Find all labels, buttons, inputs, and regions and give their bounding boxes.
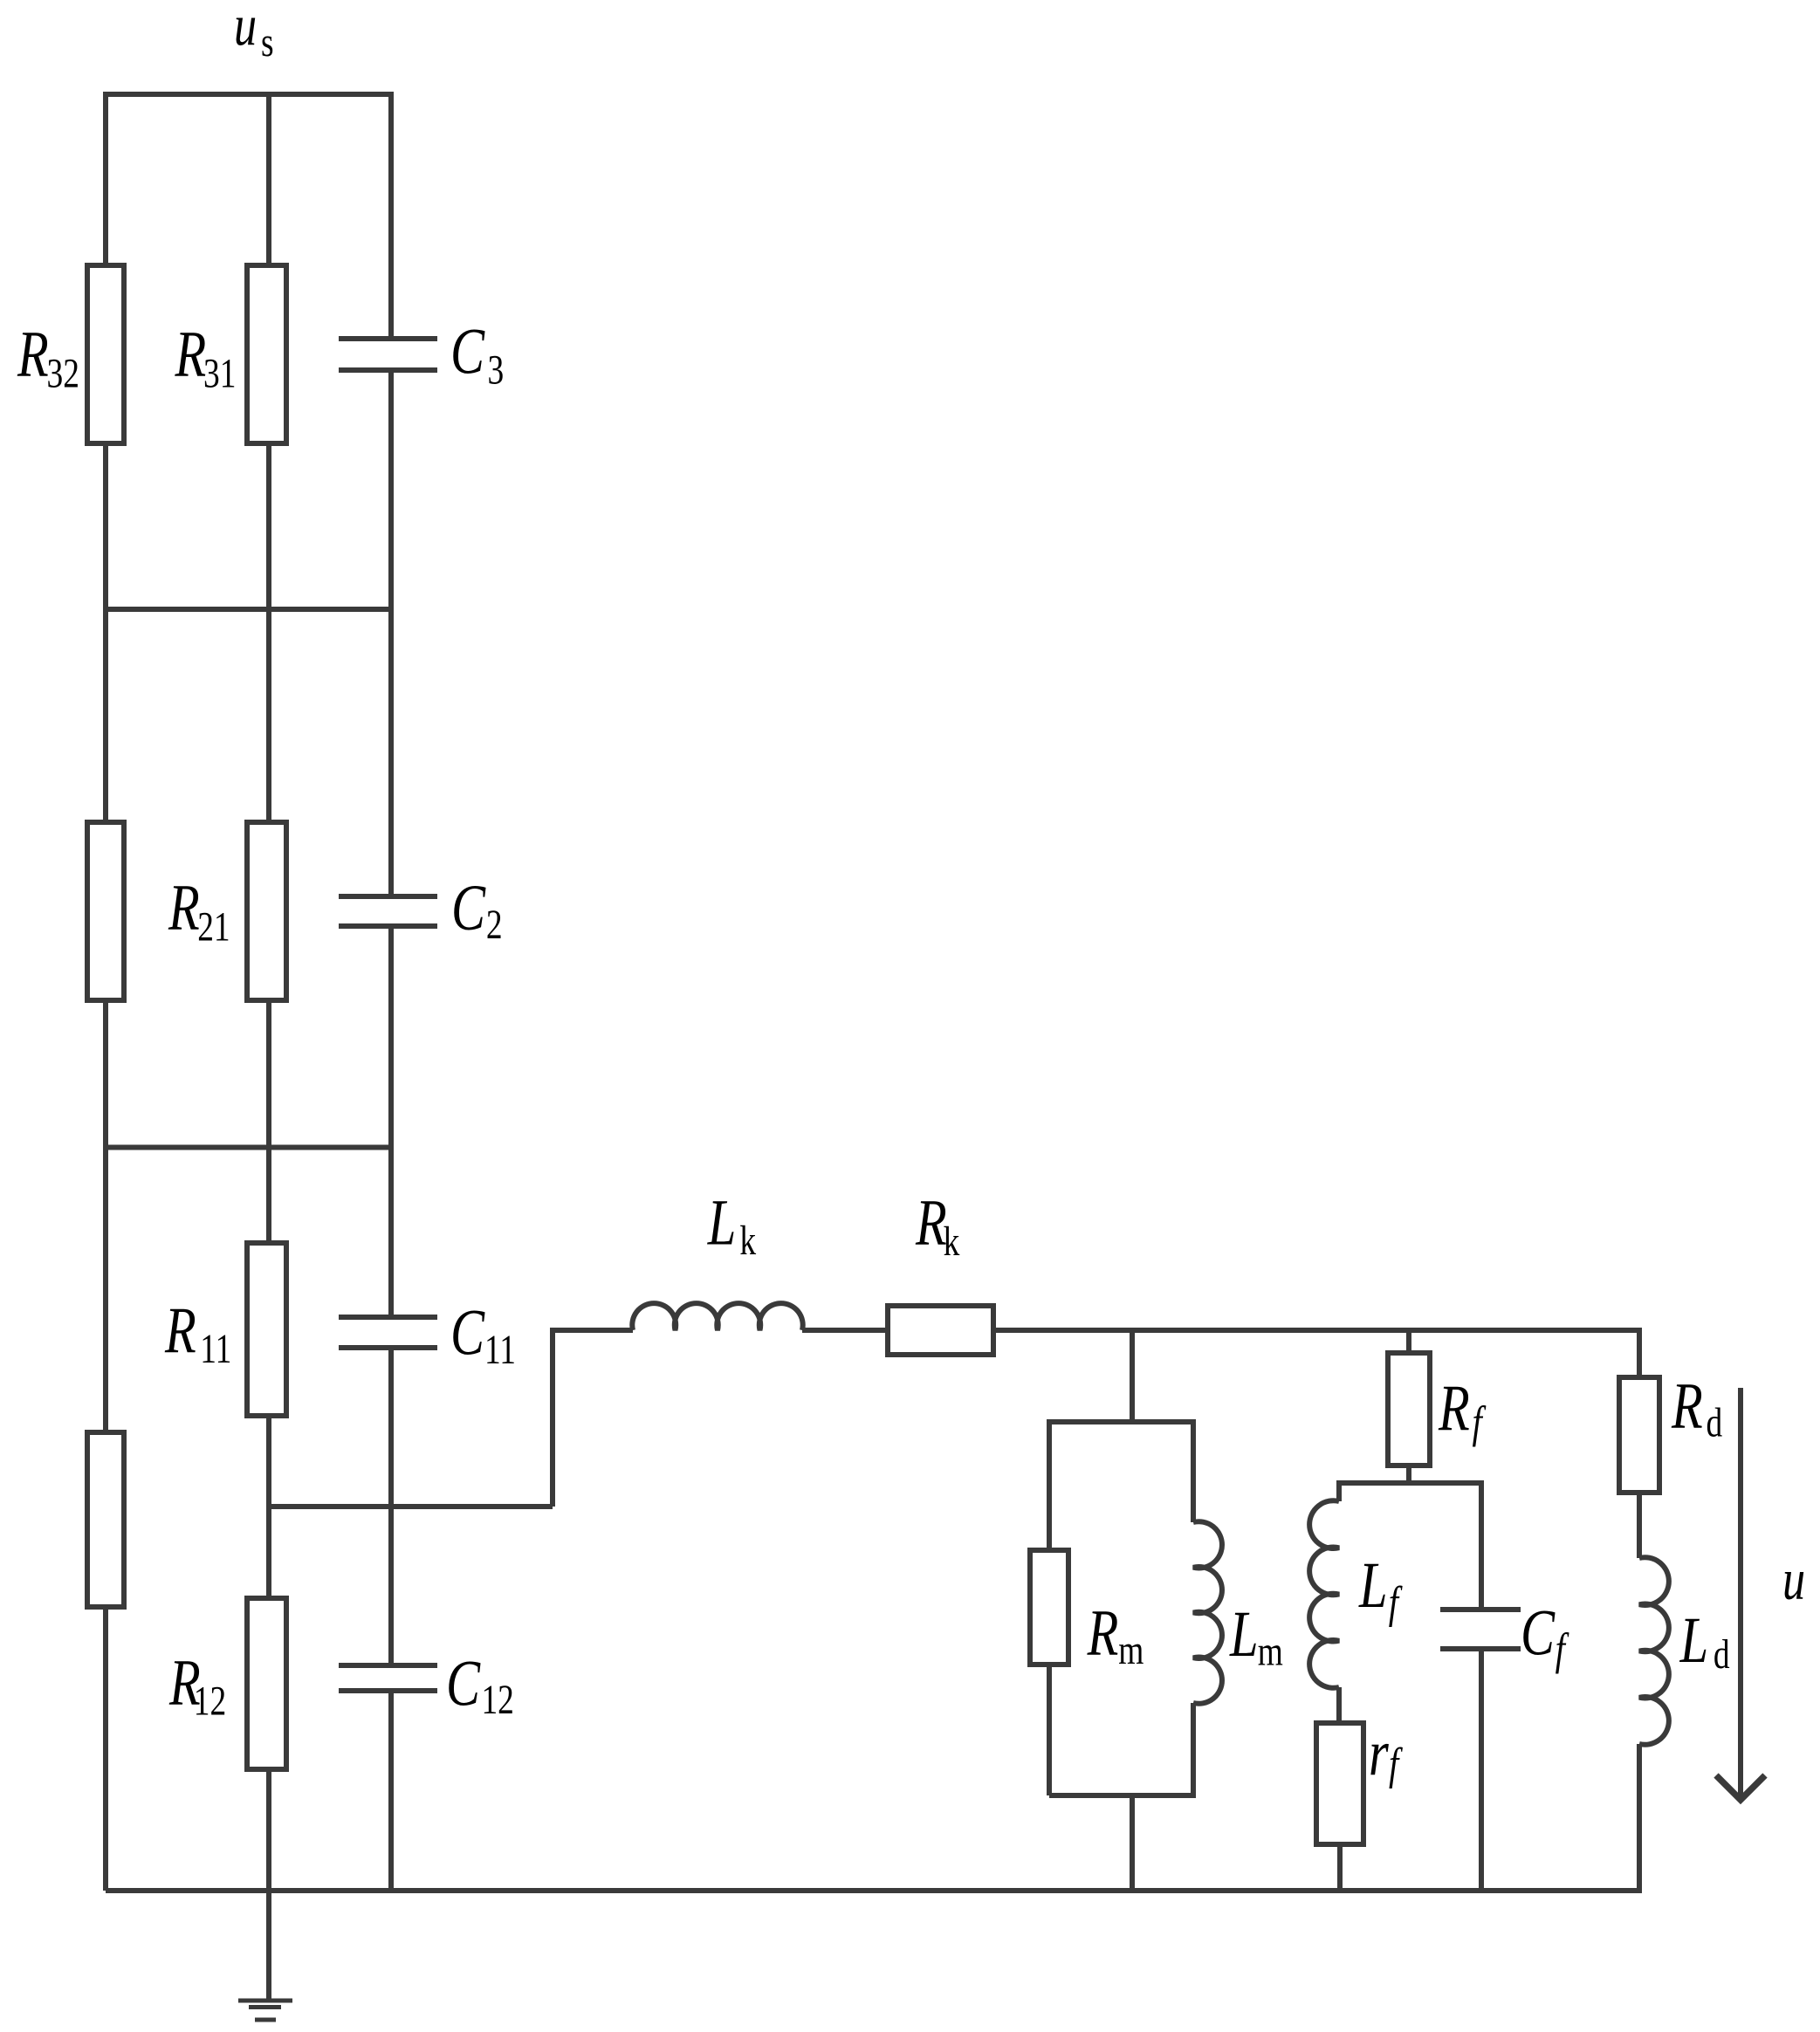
resistor left tier1 (87, 1432, 124, 1607)
svg-text:k: k (739, 1219, 756, 1264)
wire Ld to bottom bus (1637, 1744, 1642, 1893)
wire Lf branch upper (1336, 1480, 1342, 1501)
resistor rf (1316, 1723, 1363, 1844)
wire capacitor column segment 3 (388, 926, 394, 1317)
wire bottom bus (106, 1888, 1639, 1893)
wire drop to Rf (1406, 1330, 1411, 1353)
wire Rm Lm loop bottom stem (1130, 1795, 1135, 1891)
wire capacitor column segment 1 (388, 92, 394, 339)
wire Rm Lm loop right edge lower (1191, 1703, 1196, 1798)
svg-text:C: C (1521, 1596, 1556, 1670)
svg-text:L: L (1358, 1548, 1387, 1622)
svg-text:R: R (1671, 1370, 1703, 1443)
svg-text:C: C (450, 314, 485, 388)
svg-text:C: C (450, 1296, 485, 1370)
svg-text:R: R (915, 1185, 947, 1259)
capacitor C3 top plate (339, 336, 437, 341)
svg-text:31: 31 (203, 351, 236, 396)
svg-text:32: 32 (47, 351, 79, 396)
svg-text:f: f (1389, 1577, 1404, 1628)
arrow u (1738, 1388, 1743, 1796)
capacitor C2 bottom plate (339, 923, 437, 929)
wire Rf bottom stub (1406, 1466, 1411, 1483)
svg-text:L: L (707, 1185, 736, 1259)
wire Rm Lm loop right edge upper (1191, 1419, 1196, 1522)
svg-text:f: f (1473, 1397, 1487, 1448)
svg-text:C: C (446, 1647, 481, 1720)
wire Rm Lm loop top edge (1049, 1419, 1193, 1424)
wire Rd to Ld (1637, 1493, 1642, 1558)
capacitor Cf bottom plate (1440, 1646, 1521, 1651)
wire left column (103, 92, 108, 1891)
wire Cf branch upper (1479, 1480, 1484, 1610)
svg-text:L: L (1229, 1597, 1258, 1671)
capacitor C12 bottom plate (339, 1688, 437, 1693)
inductor Lf (1309, 1500, 1339, 1688)
resistor R21 (247, 822, 286, 1000)
svg-text:21: 21 (197, 904, 230, 950)
wire Lf to rf (1336, 1687, 1342, 1723)
resistor left tier2 (87, 822, 124, 1000)
svg-text:12: 12 (194, 1678, 226, 1724)
wire jog horizontal (269, 1504, 553, 1509)
wire Rm Lm loop bottom edge (1049, 1793, 1193, 1798)
svg-text:u: u (234, 0, 257, 57)
wire capacitor column segment 4 (388, 1348, 394, 1665)
wire to inductor Lk (550, 1328, 633, 1333)
resistor R32 (87, 265, 124, 443)
wire split under Rf (1339, 1480, 1481, 1486)
svg-text:R: R (168, 871, 200, 944)
inductor Ld (1639, 1557, 1669, 1745)
resistor R31 (247, 265, 286, 443)
svg-text:f: f (1556, 1624, 1570, 1675)
svg-text:f: f (1389, 1739, 1404, 1789)
svg-text:R: R (175, 317, 207, 390)
wire junction row 1 (106, 607, 391, 612)
capacitor C3 bottom plate (339, 367, 437, 373)
svg-text:R: R (1438, 1371, 1470, 1445)
svg-text:s: s (261, 20, 274, 65)
capacitor C12 top plate (339, 1663, 437, 1668)
svg-text:C: C (451, 871, 486, 944)
resistor R12 (247, 1598, 286, 1769)
svg-text:2: 2 (486, 903, 503, 948)
svg-text:11: 11 (484, 1328, 516, 1373)
resistor Rk (888, 1306, 993, 1355)
svg-text:R: R (1087, 1596, 1119, 1670)
capacitor C11 top plate (339, 1315, 437, 1320)
svg-text:R: R (164, 1294, 196, 1367)
svg-text:3: 3 (487, 347, 504, 393)
svg-text:11: 11 (200, 1327, 231, 1372)
svg-text:r: r (1369, 1717, 1389, 1790)
svg-text:d: d (1714, 1632, 1730, 1678)
svg-text:k: k (944, 1219, 960, 1265)
resistor Rd (1619, 1377, 1659, 1493)
inductor Lk (632, 1303, 802, 1330)
resistor Rm (1030, 1550, 1068, 1665)
svg-text:m: m (1258, 1629, 1283, 1674)
capacitor C2 top plate (339, 894, 437, 899)
capacitor C11 bottom plate (339, 1345, 437, 1350)
capacitor Cf top plate (1440, 1607, 1521, 1612)
inductor Lm (1193, 1521, 1222, 1704)
svg-text:d: d (1707, 1400, 1723, 1445)
resistor Rf (1388, 1353, 1430, 1466)
wire main bus (802, 1328, 1639, 1333)
svg-text:12: 12 (481, 1678, 513, 1723)
wire middle column (266, 92, 271, 1999)
wire capacitor column segment 2 (388, 370, 394, 896)
wire Rm Lm loop left edge (1047, 1419, 1052, 1795)
wire drop to Rm Lm loop (1130, 1330, 1135, 1422)
node us top bus wire (103, 92, 394, 97)
svg-text:m: m (1118, 1628, 1144, 1673)
wire jog vertical (550, 1328, 555, 1507)
ground (238, 1999, 292, 2003)
wire Cf branch lower (1479, 1649, 1484, 1891)
svg-text:L: L (1679, 1603, 1708, 1677)
svg-text:u: u (1782, 1546, 1805, 1611)
wire rf to bottom bus (1337, 1844, 1343, 1891)
wire capacitor column segment 5 (388, 1691, 394, 1891)
wire drop to Rd (1637, 1328, 1642, 1377)
resistor R11 (247, 1243, 286, 1416)
wire junction row 2 (106, 1145, 391, 1150)
svg-text:R: R (17, 317, 49, 390)
